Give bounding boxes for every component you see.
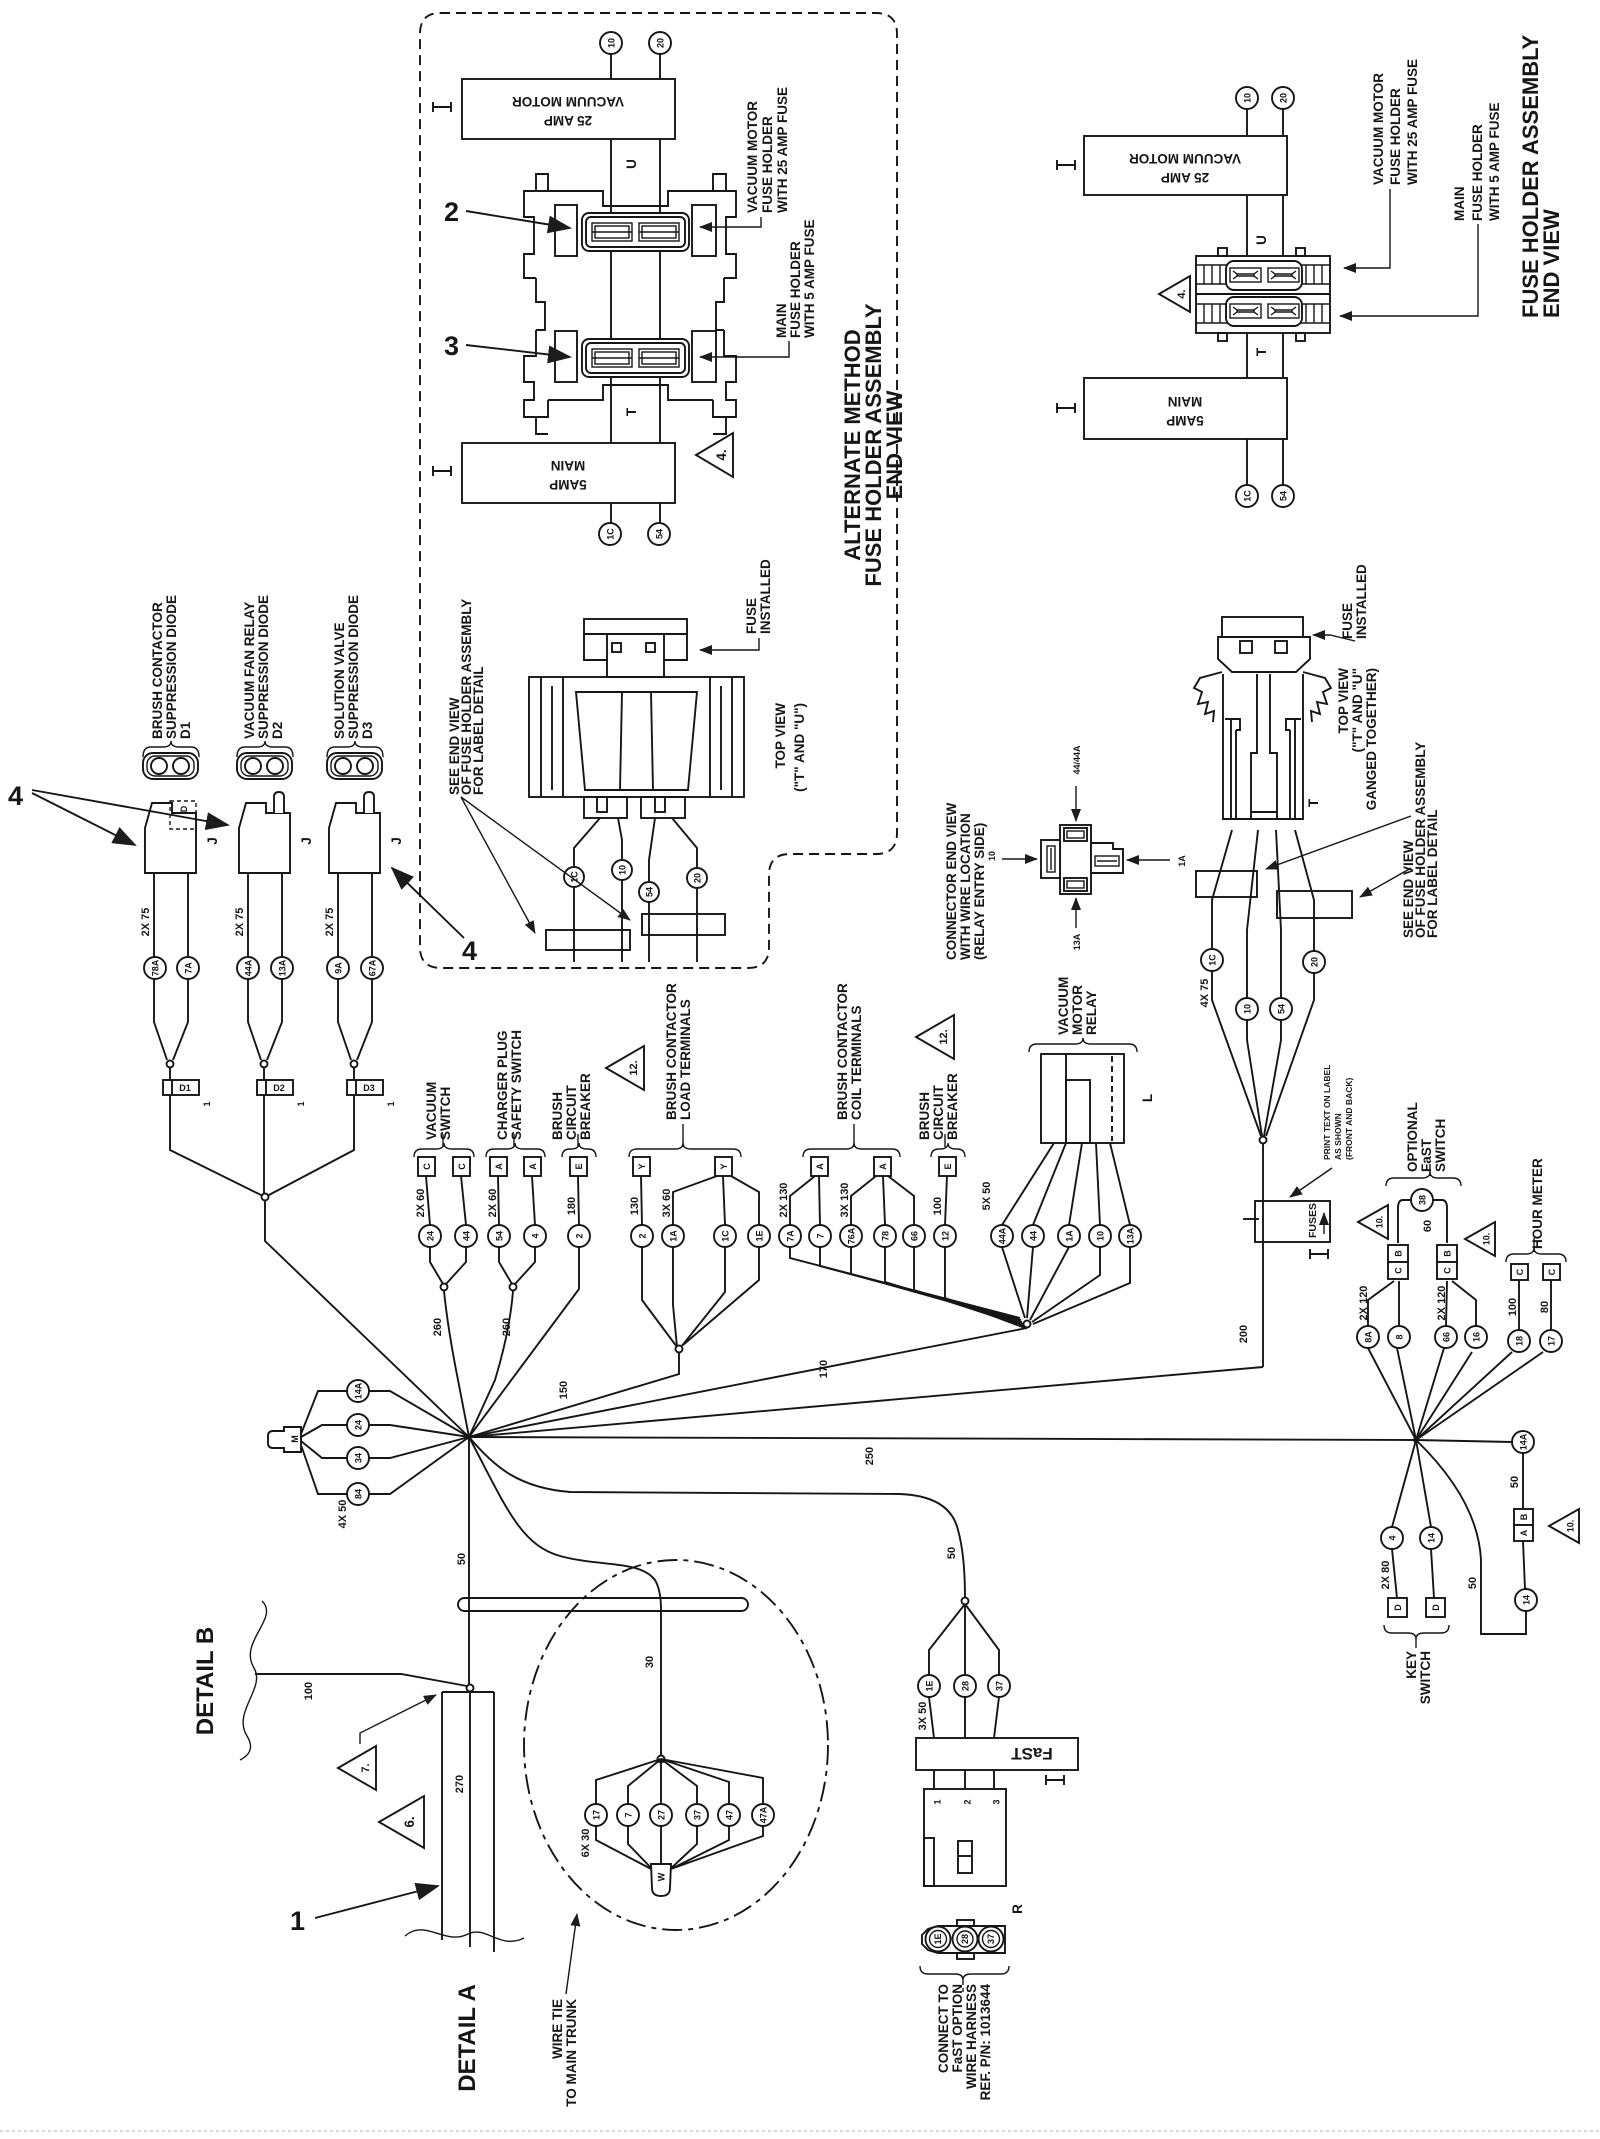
svg-text:9A: 9A (334, 962, 344, 974)
svg-text:5AMP: 5AMP (1166, 413, 1204, 428)
svg-text:17: 17 (592, 1810, 602, 1820)
terminal box A (811, 1157, 828, 1176)
label plate 2 (642, 914, 725, 935)
wires plate to connector (933, 1770, 935, 1789)
circle 12 (934, 1225, 956, 1247)
vacuum switch brace (414, 1143, 474, 1157)
fan wires to circles (596, 1759, 661, 1804)
svg-text:44/44A: 44/44A (1072, 745, 1082, 775)
warning triangle 7. (338, 1746, 376, 1790)
circle 66 (1435, 1326, 1457, 1348)
svg-text:44: 44 (462, 1231, 472, 1241)
svg-text:B: B (1394, 1250, 1404, 1257)
circle 10 (1236, 998, 1258, 1020)
M fan wires to circles (301, 1391, 347, 1434)
svg-text:44A: 44A (998, 1227, 1008, 1244)
leader to upper fuse (700, 217, 761, 227)
200 wire to hub (469, 1367, 1263, 1437)
circle 66 (903, 1225, 925, 1247)
svg-text:A: A (815, 1163, 825, 1170)
leaders to label plates (461, 797, 535, 933)
260 wires to hub (444, 1291, 469, 1437)
diode D2 brace (237, 741, 293, 757)
circle 34 (347, 1447, 369, 1469)
svg-text:66: 66 (910, 1231, 920, 1241)
svg-text:6.: 6. (402, 1816, 417, 1827)
circle 37 (988, 1675, 1010, 1697)
wires hour meter (1518, 1280, 1520, 1330)
loop wire back (1416, 1440, 1526, 1634)
circle 1E (918, 1675, 940, 1697)
svg-text:D: D (1431, 1604, 1441, 1611)
svg-text:24: 24 (354, 1420, 364, 1430)
svg-text:D2: D2 (270, 722, 285, 739)
key switch wires from hub (1392, 1440, 1416, 1527)
warning triangle 10. (1549, 1509, 1579, 1543)
circle 14A (347, 1380, 369, 1402)
D1 wire circles (144, 957, 166, 979)
circle 8A (1357, 1326, 1379, 1348)
svg-text:SOLUTION VALVE: SOLUTION VALVE (332, 622, 347, 739)
svg-text:38: 38 (1418, 1195, 1428, 1205)
svg-text:T: T (624, 407, 639, 416)
svg-text:25 AMP: 25 AMP (544, 113, 592, 128)
svg-text:SUPPRESSION DIODE: SUPPRESSION DIODE (164, 595, 179, 739)
svg-text:WIRE HARNESS: WIRE HARNESS (964, 1984, 979, 2089)
wires into FaST plate (929, 1697, 934, 1738)
svg-text:180: 180 (566, 1197, 578, 1215)
callout 4 arrow to D3 plug (392, 868, 464, 938)
circle 44A (991, 1225, 1013, 1247)
svg-text:2X 120: 2X 120 (1358, 1286, 1370, 1321)
circle 20 (1272, 87, 1294, 109)
svg-text:FaST: FaST (1011, 1744, 1053, 1763)
svg-text:47A: 47A (759, 1806, 769, 1823)
svg-text:HOUR METER: HOUR METER (1530, 1158, 1545, 1249)
svg-text:B: B (1443, 1250, 1453, 1257)
svg-text:C: C (1394, 1267, 1404, 1274)
circle 7 (617, 1804, 639, 1826)
wire 10 (vertical) (610, 54, 612, 523)
wire to 10 (618, 818, 622, 859)
circle 4 (524, 1225, 546, 1247)
50 drop wire (468, 1437, 470, 1688)
leader to fuses plate (1290, 1168, 1332, 1197)
svg-text:24: 24 (426, 1231, 436, 1241)
D2 wire to chain (263, 1095, 265, 1196)
svg-text:7A: 7A (786, 1230, 796, 1242)
svg-text:14A: 14A (354, 1382, 364, 1399)
svg-text:66: 66 (1442, 1332, 1452, 1342)
svg-text:WITH WIRE LOCATION: WITH WIRE LOCATION (958, 813, 973, 960)
svg-text:3X 60: 3X 60 (661, 1189, 673, 1218)
svg-text:D1: D1 (178, 721, 193, 739)
svg-text:1: 1 (386, 1101, 396, 1106)
chain node (262, 1194, 269, 1201)
svg-text:U: U (624, 159, 639, 169)
svg-text:34: 34 (354, 1453, 364, 1463)
FUSES label plate (1255, 1201, 1330, 1242)
diode D1 brace (143, 741, 199, 757)
svg-text:37: 37 (995, 1681, 1005, 1691)
I marker (1046, 1775, 1064, 1785)
svg-text:3: 3 (444, 331, 459, 361)
node 10 circle (600, 32, 622, 54)
svg-text:MAIN: MAIN (551, 458, 586, 473)
wire down through fuses plate (1262, 1143, 1264, 1367)
chain wire to hub (265, 1200, 469, 1437)
W connector (651, 1864, 671, 1896)
charger plug brace (486, 1143, 545, 1157)
svg-text:WIRE TIE: WIRE TIE (550, 1999, 565, 2059)
svg-text:4: 4 (531, 1233, 541, 1238)
svg-text:END VIEW: END VIEW (882, 390, 907, 499)
wire hub to 14A (1416, 1440, 1512, 1442)
svg-text:C: C (422, 1163, 432, 1170)
fuse top rect (top view) (584, 619, 687, 634)
D2 wire circles (237, 957, 259, 979)
svg-text:1C: 1C (1243, 490, 1253, 502)
svg-text:2: 2 (638, 1233, 648, 1238)
svg-text:1: 1 (202, 1101, 212, 1106)
left hub junction (466, 1434, 472, 1440)
svg-text:TOP VIEW: TOP VIEW (1336, 668, 1351, 734)
svg-text:VACUUM MOTOR: VACUUM MOTOR (1129, 151, 1241, 166)
coil terminals brace (803, 1143, 900, 1157)
circle 7 (809, 1225, 831, 1247)
svg-text:REF. P/N: 1013644: REF. P/N: 1013644 (978, 1984, 993, 2101)
callout 4 arrows to D1 and D2 plugs (32, 793, 135, 845)
svg-text:8A: 8A (1364, 1331, 1374, 1343)
svg-text:18: 18 (1515, 1336, 1525, 1346)
circle 8 (1388, 1326, 1410, 1348)
svg-text:FUSE HOLDER: FUSE HOLDER (1388, 88, 1403, 185)
circle 2 (568, 1225, 590, 1247)
svg-text:4: 4 (462, 936, 477, 966)
circle 17 (1540, 1330, 1562, 1352)
node 1C circle (599, 523, 621, 545)
svg-text:14: 14 (1427, 1533, 1437, 1543)
svg-text:J: J (205, 837, 220, 845)
circle 24 (419, 1225, 441, 1247)
svg-text:54: 54 (495, 1231, 505, 1241)
svg-text:1A: 1A (1177, 855, 1187, 867)
svg-text:T: T (1306, 798, 1321, 807)
FaST connector block (924, 1789, 1006, 1886)
svg-text:A: A (494, 1163, 504, 1170)
wires to D boxes (1392, 1549, 1397, 1598)
svg-text:D: D (179, 805, 189, 812)
FaST label plate (916, 1738, 1078, 1770)
svg-text:TO MAIN TRUNK: TO MAIN TRUNK (564, 1999, 579, 2107)
optional FaST brace (1386, 1172, 1461, 1186)
svg-text:CONNECT TO: CONNECT TO (936, 1984, 951, 2073)
svg-text:12.: 12. (628, 1060, 640, 1075)
svg-text:MAIN: MAIN (774, 304, 789, 339)
junction node (1260, 1137, 1267, 1144)
main 5amp label box (462, 443, 675, 503)
svg-text:W: W (657, 1872, 667, 1881)
svg-text:B: B (1519, 1513, 1529, 1520)
circle 47 (718, 1804, 740, 1826)
detail A fan node (658, 1756, 665, 1763)
svg-text:10: 10 (987, 851, 997, 861)
svg-text:10.: 10. (1375, 1216, 1385, 1229)
label plate 1 (546, 930, 630, 950)
relay circle wires to node (1002, 1247, 1025, 1318)
svg-text:CONNECTOR END VIEW: CONNECTOR END VIEW (944, 802, 959, 960)
svg-text:D1: D1 (179, 1083, 191, 1093)
svg-text:C: C (457, 1163, 467, 1170)
svg-text:BREAKER: BREAKER (945, 1073, 960, 1140)
fuse holder side rect left (upper) (555, 205, 577, 256)
svg-text:4.: 4. (714, 449, 729, 460)
svg-text:2X 60: 2X 60 (415, 1189, 427, 1218)
svg-text:FaST OPTION: FaST OPTION (950, 1984, 965, 2073)
fuse holder side rect right (upper) (692, 205, 716, 256)
svg-text:20: 20 (1310, 957, 1320, 967)
svg-text:BRUSH CONTACTOR: BRUSH CONTACTOR (664, 983, 679, 1120)
svg-text:1C: 1C (1208, 954, 1218, 966)
wire to circle 14 (1523, 1541, 1525, 1589)
svg-text:10: 10 (607, 38, 617, 48)
svg-text:2: 2 (444, 197, 459, 227)
diode D1 connector end view (143, 753, 198, 779)
terminal box Y (715, 1157, 732, 1176)
key switch brace (downward) (1384, 1625, 1449, 1639)
hour meter C boxes (1511, 1264, 1528, 1280)
svg-text:2X 130: 2X 130 (778, 1183, 790, 1218)
fuse cartridge upper (25A) (582, 213, 689, 251)
pair nodes below (430, 1247, 443, 1284)
circle 20 (1303, 951, 1325, 973)
svg-text:("T" AND "U"): ("T" AND "U") (792, 703, 807, 792)
svg-text:COIL TERMINALS: COIL TERMINALS (849, 1006, 864, 1121)
D1 wires down (154, 873, 167, 1060)
ganged holder top view: fuse cap (1222, 617, 1303, 637)
svg-text:CIRCUIT: CIRCUIT (564, 1085, 579, 1140)
fuse body with windows (584, 634, 687, 677)
svg-text:76A: 76A (847, 1227, 857, 1244)
svg-text:("T" AND "U": ("T" AND "U" (1350, 668, 1365, 752)
svg-text:3: 3 (992, 1799, 1002, 1804)
svg-text:7A: 7A (184, 962, 194, 974)
svg-text:1E: 1E (755, 1230, 765, 1241)
svg-text:CIRCUIT: CIRCUIT (931, 1085, 946, 1140)
svg-text:150: 150 (558, 1381, 570, 1399)
svg-text:1C: 1C (721, 1230, 731, 1242)
170 wire to hub (469, 1328, 1027, 1437)
svg-text:FUSE HOLDER: FUSE HOLDER (1470, 124, 1485, 221)
wire tie arrow (566, 1914, 577, 1994)
leader to lower fuse (700, 341, 789, 357)
circle 44 b (1022, 1225, 1044, 1247)
warning triangle 12. (606, 1046, 644, 1090)
svg-text:1A: 1A (669, 1230, 679, 1242)
trunk squiggle cut bottom (405, 1930, 524, 1942)
svg-text:D: D (1393, 1604, 1403, 1611)
circle 10 (1236, 87, 1258, 109)
bracket bottom edge with T channel (548, 385, 713, 400)
svg-text:E: E (943, 1163, 953, 1169)
circle 47A (752, 1804, 774, 1826)
brace under connector (920, 1966, 1009, 1980)
svg-text:1: 1 (296, 1101, 306, 1106)
svg-text:100: 100 (932, 1197, 944, 1215)
svg-text:Y: Y (637, 1163, 647, 1169)
svg-text:1C: 1C (606, 528, 616, 540)
svg-text:4: 4 (1388, 1535, 1398, 1540)
svg-text:37: 37 (693, 1810, 703, 1820)
circle 14 (1515, 1589, 1537, 1611)
svg-text:10.: 10. (1566, 1520, 1576, 1533)
D2 box (263, 1067, 265, 1080)
svg-text:VACUUM: VACUUM (1056, 977, 1071, 1035)
A/B boxes (1514, 1509, 1533, 1525)
circle 2 b (631, 1225, 653, 1247)
leaders to plates (1266, 816, 1411, 869)
svg-text:7: 7 (816, 1233, 826, 1238)
circle 18 (1508, 1330, 1530, 1352)
wire to 1C (574, 818, 600, 866)
svg-text:BRUSH CONTACTOR: BRUSH CONTACTOR (150, 602, 165, 739)
terminal box A (524, 1157, 541, 1176)
svg-text:(RELAY ENTRY SIDE): (RELAY ENTRY SIDE) (972, 823, 987, 960)
node at trunk top (467, 1685, 474, 1692)
circle 10 (612, 860, 632, 880)
diode D1 plug (145, 803, 196, 873)
svg-text:1: 1 (933, 1799, 943, 1804)
svg-text:12.: 12. (938, 1029, 950, 1044)
svg-text:VACUUM MOTOR: VACUUM MOTOR (1371, 73, 1386, 185)
circle 20 (687, 868, 707, 888)
svg-text:TOP VIEW: TOP VIEW (773, 703, 788, 769)
svg-text:54: 54 (1277, 1004, 1287, 1014)
svg-text:13A: 13A (1072, 933, 1082, 950)
circle 54 (1272, 485, 1294, 507)
load terminals brace (629, 1143, 741, 1157)
M connector plug (268, 1427, 301, 1452)
svg-text:DETAIL A: DETAIL A (454, 1984, 481, 2092)
bracket top edge with U channel (548, 191, 713, 206)
svg-text:A: A (878, 1163, 888, 1170)
svg-text:FUSE HOLDER: FUSE HOLDER (788, 241, 803, 338)
svg-text:M: M (290, 1435, 300, 1443)
svg-text:VACUUM MOTOR: VACUUM MOTOR (745, 101, 760, 213)
svg-text:FUSE: FUSE (744, 598, 759, 634)
svg-text:10.: 10. (1482, 1233, 1492, 1246)
fan wires to circles (929, 1604, 965, 1675)
svg-text:12: 12 (941, 1231, 951, 1241)
circle 4 (1381, 1527, 1403, 1549)
svg-text:FUSES: FUSES (1307, 1203, 1319, 1238)
svg-text:FOR LABEL DETAIL: FOR LABEL DETAIL (471, 667, 486, 796)
svg-text:27: 27 (657, 1810, 667, 1820)
fuse cartridge lower (5A main) (582, 339, 689, 377)
svg-text:50: 50 (946, 1547, 958, 1559)
svg-text:BRUSH CONTACTOR: BRUSH CONTACTOR (835, 983, 850, 1120)
svg-text:10: 10 (1096, 1231, 1106, 1241)
circle 1A (662, 1225, 684, 1247)
bottom connector tabs (top view) (584, 797, 627, 818)
svg-text:54: 54 (1279, 491, 1289, 501)
vacuum motor 25amp box (1084, 136, 1287, 195)
svg-text:C: C (1547, 1268, 1557, 1275)
D1 wire to chain (170, 1095, 263, 1196)
svg-text:E: E (574, 1163, 584, 1169)
dashed boundary of ALTERNATE METHOD detail box (420, 13, 897, 968)
key switch D boxes (1388, 1598, 1407, 1617)
wire to 20 (672, 818, 697, 867)
svg-text:20: 20 (1279, 93, 1289, 103)
circle 1C (1201, 949, 1223, 971)
terminal box A (490, 1157, 507, 1176)
holder wide body (top view) (529, 677, 744, 797)
wires circles up to switch boxes (1368, 1281, 1394, 1326)
svg-text:END VIEW: END VIEW (1539, 209, 1564, 318)
label plate 2 (right) (1277, 891, 1352, 918)
svg-text:J: J (299, 837, 314, 845)
svg-text:WITH 25 AMP FUSE: WITH 25 AMP FUSE (1405, 59, 1420, 185)
svg-text:A: A (528, 1163, 538, 1170)
FaST branch node (962, 1598, 969, 1605)
main 5amp box (1084, 378, 1287, 439)
svg-text:20: 20 (693, 873, 703, 883)
svg-text:13A: 13A (1126, 1227, 1136, 1244)
svg-text:54: 54 (645, 887, 655, 897)
detail A dashed ellipse (524, 1560, 828, 1930)
svg-text:20: 20 (656, 38, 666, 48)
svg-text:SWITCH: SWITCH (1433, 1119, 1448, 1172)
svg-text:78A: 78A (151, 959, 161, 976)
I marker (1057, 403, 1075, 413)
circle 76A (840, 1225, 862, 1247)
I marker left of main box (433, 466, 451, 476)
terminal box C (453, 1157, 470, 1176)
svg-text:SUPPRESSION DIODE: SUPPRESSION DIODE (346, 595, 361, 739)
svg-text:54: 54 (655, 529, 665, 539)
svg-text:WITH 25 AMP FUSE: WITH 25 AMP FUSE (775, 87, 790, 213)
svg-text:LOAD TERMINALS: LOAD TERMINALS (678, 999, 693, 1120)
svg-text:5X 50: 5X 50 (981, 1182, 993, 1211)
hub curve to FaST branch (469, 1437, 965, 1598)
breaker brace right (931, 1143, 965, 1157)
circle 7A (779, 1225, 801, 1247)
svg-text:SUPPRESSION DIODE: SUPPRESSION DIODE (256, 595, 271, 739)
circle 27 (650, 1804, 672, 1826)
svg-text:17: 17 (1547, 1336, 1557, 1346)
wires from holder to circles (1212, 830, 1232, 949)
svg-text:28: 28 (960, 1934, 970, 1944)
right assembly wire 10 (1246, 109, 1248, 485)
svg-text:4X 50: 4X 50 (337, 1500, 349, 1529)
svg-text:60: 60 (1422, 1220, 1434, 1232)
svg-text:47: 47 (725, 1810, 735, 1820)
load terminal wires to node (642, 1247, 677, 1347)
svg-text:C: C (1443, 1267, 1453, 1274)
svg-text:J: J (389, 837, 404, 845)
svg-text:28: 28 (961, 1681, 971, 1691)
svg-text:MAIN: MAIN (1168, 394, 1203, 409)
svg-text:130: 130 (629, 1197, 641, 1215)
svg-text:D3: D3 (360, 721, 375, 739)
circle 10 b (1089, 1225, 1111, 1247)
svg-text:FUSE HOLDER: FUSE HOLDER (760, 116, 775, 213)
svg-text:10: 10 (618, 865, 628, 875)
detail B squiggle cut (240, 1601, 267, 1760)
connector end view (relay entry side) (1060, 825, 1091, 894)
svg-text:1: 1 (290, 1906, 305, 1936)
